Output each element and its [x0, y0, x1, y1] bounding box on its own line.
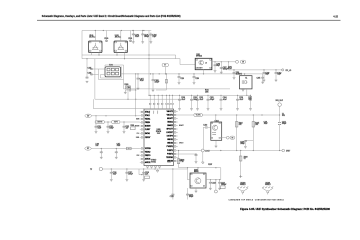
svg-text:.1uF: .1uF	[125, 127, 128, 129]
wire U102 output	[121, 73, 263, 75]
svg-text:5F/5T: 5F/5T	[286, 150, 290, 152]
connector RX LO	[282, 69, 284, 71]
svg-text:VSS1: VSS1	[167, 161, 171, 163]
svg-text:SFOUT: SFOUT	[179, 143, 184, 145]
svg-text:100K: 100K	[205, 91, 209, 93]
wire right rail drop	[148, 31, 150, 59]
connector MOD	[226, 136, 229, 139]
svg-text:PHIDT2: PHIDT2	[167, 154, 173, 156]
svg-text:16.8MHZ: 16.8MHZ	[236, 73, 242, 75]
node top rail junctions	[95, 30, 96, 31]
svg-text:C101: C101	[128, 38, 132, 40]
capacitor C203 with ground	[207, 95, 209, 98]
wire U200 lock pin	[178, 150, 202, 152]
capacitor C226 bottom	[187, 188, 189, 194]
wire left rail	[81, 31, 83, 59]
svg-text:9V3_UHF: 9V3_UHF	[276, 100, 283, 102]
svg-text:100pF: 100pF	[155, 82, 160, 84]
wire U100 bottom pins	[91, 53, 93, 56]
crystal Y200 shield box	[240, 76, 253, 89]
svg-text:C230: C230	[195, 78, 199, 80]
capacitor C205 with ground	[262, 74, 264, 77]
svg-text:C205: C205	[257, 78, 261, 80]
svg-text:.01uF: .01uF	[117, 145, 121, 147]
svg-text:.01uF: .01uF	[181, 99, 185, 101]
svg-text:56pF: 56pF	[216, 65, 220, 67]
svg-text:5VPS: 5VPS	[114, 122, 118, 124]
svg-text:.01uF: .01uF	[239, 99, 243, 101]
capacitor C219	[203, 126, 205, 128]
wire Y200 ground stub	[242, 88, 244, 89]
svg-text:33pF: 33pF	[265, 74, 269, 76]
wire left vertical to 5V rail	[94, 59, 96, 99]
svg-text:GNDD2: GNDD2	[167, 143, 173, 145]
wire Q201 output	[212, 61, 236, 63]
capacitor C227 with ground	[250, 95, 252, 98]
U200 ground arrow	[157, 169, 159, 171]
node 5V rail junctions	[148, 95, 149, 96]
svg-text:C204: C204	[223, 97, 227, 99]
svg-text:R201: R201	[131, 125, 135, 127]
svg-text:49U70.2: 49U70.2	[89, 37, 95, 39]
connector J201 TX INJ	[236, 60, 239, 63]
capacitor C217 with ground	[126, 169, 128, 172]
wire J202 down	[279, 106, 281, 150]
wire Q203 emitter down	[195, 188, 197, 191]
svg-text:.01uF: .01uF	[140, 80, 144, 82]
svg-text:C223: C223	[212, 183, 216, 185]
capacitor C202 with ground	[197, 95, 199, 98]
wire R100 to rail	[127, 89, 129, 99]
node VCTRL junctions	[215, 114, 216, 115]
capacitor C225 bottom	[172, 169, 174, 194]
capacitor C103 with ground	[142, 30, 143, 31]
svg-text:CEX: CEX	[137, 155, 140, 157]
oscillator module U101	[114, 41, 128, 53]
svg-text:BC847: BC847	[212, 132, 216, 134]
wire U101 top pin	[120, 31, 122, 42]
net flag VDD oval	[85, 114, 92, 117]
connector TRB	[282, 149, 285, 152]
wire C219 down to lock bus	[202, 127, 204, 149]
wire lower bus 2	[82, 59, 195, 65]
wire feedback loop inner	[101, 67, 122, 79]
svg-text:PREIN: PREIN	[145, 122, 151, 124]
capacitor C229 with ground	[178, 74, 180, 76]
wire bus into IC top-left	[94, 108, 145, 110]
capacitor C218 with ground	[143, 169, 145, 172]
svg-text:C229: C229	[180, 78, 184, 80]
svg-text:IOUTPH: IOUTPH	[167, 136, 174, 138]
capacitor C110 with ground	[135, 74, 137, 116]
capacitor C101	[130, 31, 132, 40]
node Q201 output junctions	[214, 61, 215, 62]
svg-text:R10 4R7: R10 4R7	[197, 68, 202, 70]
resistor R204	[236, 115, 238, 151]
svg-text:5VSYN: 5VSYN	[97, 122, 102, 124]
capacitor C213 with ground	[123, 122, 125, 126]
svg-text:VCC2: VCC2	[153, 110, 155, 114]
svg-text:PVREF1: PVREF1	[167, 146, 173, 148]
svg-text:.01uF: .01uF	[199, 99, 203, 101]
wire Q203 base left	[188, 168, 191, 180]
transistor module Q202	[211, 122, 222, 140]
U200 left pins	[140, 111, 144, 113]
svg-text:5R: 5R	[232, 137, 234, 139]
svg-text:CEXSY: CEXSY	[145, 137, 151, 139]
wire to test connector	[215, 180, 217, 190]
svg-text:RX_LO: RX_LO	[286, 70, 292, 72]
svg-text:5T: 5T	[164, 65, 166, 67]
svg-text:16M8: 16M8	[136, 119, 140, 121]
svg-text:100pF: 100pF	[189, 196, 194, 198]
svg-text:51: 51	[244, 158, 246, 160]
svg-text:C110: C110	[127, 87, 131, 89]
capacitor C230 with ground	[193, 74, 195, 76]
capacitor C231 with ground	[178, 153, 196, 155]
capacitor C210 with ground	[275, 70, 277, 72]
net flag pill VCTRL2	[194, 113, 203, 116]
svg-text:C203: C203	[210, 97, 214, 99]
svg-text:CLK: CLK	[137, 133, 140, 135]
svg-text:C219: C219	[203, 124, 207, 126]
capacitor C220 with ground	[245, 139, 253, 141]
U200 right pins	[174, 111, 178, 113]
svg-text:12pF: 12pF	[277, 74, 281, 76]
svg-text:C227: C227	[248, 97, 252, 99]
capacitor C204 with ground	[220, 95, 222, 98]
resistor R202	[127, 147, 132, 150]
svg-text:.01uF: .01uF	[113, 174, 117, 176]
wire U200 bottom stub left	[139, 174, 148, 176]
capacitor C108 with ground	[152, 74, 154, 79]
resistor R209 vertical with ground	[240, 151, 242, 177]
capacitor C207 with ground	[220, 62, 222, 67]
svg-text:R207: R207	[208, 164, 212, 166]
svg-text:U200: U200	[157, 129, 161, 131]
shield SH200 symbol	[237, 187, 248, 195]
svg-text:FREFO: FREFO	[145, 155, 151, 157]
svg-text:.01uF: .01uF	[223, 99, 227, 101]
wire Q202 collector up	[215, 115, 217, 122]
wire Y200 top pin	[244, 74, 246, 76]
svg-text:100pF: 100pF	[240, 143, 245, 145]
node U102 output junctions	[135, 73, 136, 74]
svg-text:C106: C106	[88, 73, 92, 75]
svg-text:9V3: 9V3	[282, 115, 285, 117]
svg-text:100pF: 100pF	[109, 127, 113, 129]
capacitor C228 with ground	[237, 95, 239, 98]
svg-text:CLKSY: CLKSY	[145, 129, 151, 131]
oscillator module U100	[89, 41, 103, 53]
svg-text:390pF: 390pF	[144, 36, 149, 38]
wire U101 bottom pins	[116, 53, 118, 56]
svg-text:18pF: 18pF	[248, 99, 252, 101]
wire Q202 output to connector	[222, 137, 227, 139]
resistor R100	[124, 80, 129, 89]
resistor R201	[131, 127, 136, 130]
capacitor C107 with ground	[137, 74, 139, 77]
resistor R203	[145, 176, 150, 179]
capacitor C224 with ground	[219, 180, 221, 182]
wire top rail VCC	[82, 30, 151, 32]
wire lower bus step	[175, 55, 177, 59]
svg-text:SHIELD: SHIELD	[240, 184, 247, 186]
svg-text:C201: C201	[193, 97, 197, 99]
capacitor C201 with ground	[191, 95, 193, 98]
wire lock pulldown ground	[202, 152, 204, 162]
capacitor C221 series	[278, 122, 281, 124]
svg-text:VMULT2: VMULT2	[167, 111, 173, 113]
svg-text:.01uF: .01uF	[264, 123, 268, 125]
capacitor C214 with ground	[100, 149, 102, 152]
net flag oval 5C	[85, 147, 91, 150]
svg-text:100pF: 100pF	[128, 174, 133, 176]
capacitor C109 with ground	[86, 59, 88, 77]
wire rail down to IC row	[93, 99, 95, 109]
capacitor C211 with ground	[95, 116, 97, 126]
capacitor C216 with ground	[110, 169, 112, 172]
wire lock bus	[204, 150, 281, 152]
svg-text:R102: R102	[205, 90, 209, 92]
U200 top right pins	[166, 95, 168, 103]
net flag pill VCTRL	[95, 120, 105, 123]
svg-text:Figure 4-65. UHF Synthesizer: Figure 4-65. UHF Synthesizer Schematic D…	[240, 207, 330, 211]
svg-text:MODIN: MODIN	[135, 126, 139, 128]
wire Q201 emitter down	[203, 70, 205, 74]
svg-text:R100: R100	[125, 84, 129, 86]
svg-text:4B7R2: 4B7R2	[212, 134, 216, 136]
svg-text:X1: X1	[245, 77, 247, 79]
svg-text:C200: C200	[181, 97, 185, 99]
wire U100 top pin	[94, 31, 96, 42]
svg-text:SHIELD: SHIELD	[265, 184, 272, 186]
wire feedback loop outer	[99, 65, 124, 80]
wire bias bus	[179, 167, 221, 169]
svg-text:49U70.2: 49U70.2	[115, 37, 121, 39]
wire pills to U200	[105, 121, 112, 123]
capacitor C208 with ground	[233, 70, 235, 72]
wire 5C to U200	[91, 148, 140, 150]
capacitor C223 with ground	[209, 180, 211, 182]
synthesizer IC U200	[144, 109, 174, 166]
svg-text:LOCKDT: LOCKDT	[166, 132, 173, 134]
svg-text:1uH: 1uH	[96, 145, 99, 147]
svg-text:Q1: Q1	[205, 62, 207, 64]
svg-text:18pF: 18pF	[152, 36, 156, 38]
svg-text:SYNGD: SYNGD	[151, 160, 157, 162]
U200 top pins	[149, 95, 151, 103]
header rule	[37, 19, 341, 22]
svg-text:C100: C100	[104, 38, 108, 40]
U200 top pin name text	[149, 110, 151, 114]
wire Y200 bottom pin	[246, 89, 248, 95]
svg-text:MODIN: MODIN	[145, 126, 151, 128]
wire Q203 output	[206, 179, 221, 181]
svg-text:GNDD1: GNDD1	[167, 139, 173, 141]
capacitor C100	[106, 31, 108, 40]
svg-text:VCTRL: VCTRL	[196, 115, 201, 117]
capacitor C209 with ground	[263, 70, 265, 72]
lock detect connector	[201, 149, 204, 152]
testpoint flag 5T	[165, 67, 167, 74]
node lower bus junctions	[98, 54, 99, 55]
svg-text:Schematic Diagrams, Overlays,: Schematic Diagrams, Overlays, and Parts …	[42, 15, 181, 18]
svg-text:4-25: 4-25	[333, 16, 338, 19]
svg-text:.01uF: .01uF	[97, 127, 101, 129]
capacitor C215 with ground	[115, 149, 117, 152]
svg-text:PHIDT1: PHIDT1	[167, 150, 173, 152]
svg-text:VCPRG: VCPRG	[145, 148, 151, 150]
transistor module Q201	[195, 58, 212, 69]
resistor R208 label box	[220, 186, 225, 189]
reference oscillator U102	[105, 67, 121, 77]
wire bias to output link	[220, 168, 222, 180]
resistor R101 branch	[156, 74, 166, 90]
wire TP200 bus	[103, 168, 188, 170]
U200 bottom pins	[147, 166, 149, 169]
wire Q202 emitter ground	[215, 140, 217, 145]
capacitor C200 with ground	[179, 95, 181, 98]
wire Q203 collector top	[197, 168, 199, 173]
capacitor C104 with ground	[148, 30, 150, 32]
svg-text:VSSD2: VSSD2	[151, 161, 156, 163]
resistor R205	[252, 115, 254, 151]
wire reference bias run	[131, 88, 231, 90]
capacitor C206 with ground	[214, 62, 216, 65]
svg-text:0.1uF: 0.1uF	[228, 68, 232, 70]
wire to RX LO branch	[229, 62, 283, 70]
svg-text:470pF: 470pF	[210, 99, 215, 101]
svg-text:C228: C228	[239, 97, 243, 99]
wire top-section drop to rail	[148, 59, 150, 96]
wire VDD to U200	[92, 115, 140, 117]
svg-text:.01uF: .01uF	[135, 36, 139, 38]
capacitor C212 with ground	[107, 122, 109, 126]
svg-text:C202: C202	[199, 97, 203, 99]
svg-text:SFOUTT: SFOUTT	[166, 129, 172, 131]
transistor module Q203	[190, 173, 206, 188]
capacitor C102 with ground	[133, 30, 134, 31]
svg-text:VCC1: VCC1	[149, 110, 151, 114]
node RX LO branch junctions	[233, 69, 234, 70]
svg-text:C225: C225	[170, 196, 174, 198]
svg-text:VMULT1: VMULT1	[167, 115, 173, 117]
shield SH201 symbol	[262, 187, 273, 195]
capacitor C106	[93, 74, 99, 76]
connector TP201	[214, 190, 217, 193]
wire net VCTRL from U200	[178, 114, 280, 116]
net flag pill VMULT	[112, 120, 121, 123]
svg-text:C105: C105	[88, 67, 92, 69]
svg-text:TESTMD: TESTMD	[166, 157, 173, 159]
wire lower bus 1	[82, 54, 176, 56]
wire 5V rail lower	[95, 98, 180, 100]
wire 5V rail upper	[149, 94, 251, 96]
svg-text:3301: 3301	[157, 133, 161, 135]
svg-text:470pF: 470pF	[282, 123, 287, 125]
capacitor C105	[93, 68, 99, 70]
svg-text:VCC3: VCC3	[157, 110, 159, 114]
